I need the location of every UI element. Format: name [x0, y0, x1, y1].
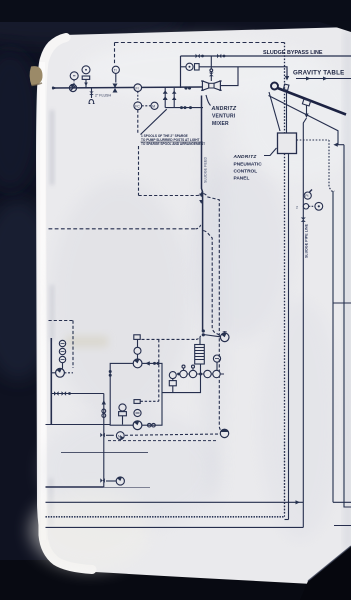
wire: venturi outlet riser	[220, 67, 238, 86]
gauge above valve row	[213, 355, 220, 362]
svg-text:TO SPARGE SPOOL AND ARRANGEMEN: TO SPARGE SPOOL AND ARRANGEMENT	[141, 142, 205, 146]
dashed signal inside skid	[141, 400, 159, 402]
svg-text:2" FLUSH: 2" FLUSH	[95, 94, 111, 98]
skid inlet arrow on top edge	[145, 361, 150, 365]
head roller	[271, 83, 278, 90]
instrument stack left	[59, 340, 65, 346]
wire: left standpipe	[50, 338, 52, 425]
wire: sparge sub-header	[165, 107, 203, 109]
check valve on main line	[113, 84, 118, 93]
svg-text:SLUDGE PIPE LINE: SLUDGE PIPE LINE	[304, 223, 308, 258]
tan notch left edge	[30, 66, 43, 85]
controller bubble below	[134, 102, 142, 110]
faint ghost marks near fore-edge	[50, 110, 54, 185]
sprays on table	[302, 99, 310, 106]
wire: dashed drop to main line	[114, 43, 116, 65]
svg-text:ANDRITZ: ANDRITZ	[211, 106, 237, 112]
motor bubble right of controller	[151, 102, 158, 109]
junction dots on feed drop bottom	[202, 329, 205, 332]
svg-text:SLUDGE BYPASS LINE: SLUDGE BYPASS LINE	[263, 50, 323, 56]
pump P1 on main line	[69, 84, 76, 91]
svg-text:CONTROL: CONTROL	[234, 169, 258, 175]
wire: dashed skid enclosure	[142, 338, 197, 340]
wire: coil drop to gauge run	[162, 364, 201, 393]
page fore-edge highlight strip	[42, 38, 93, 570]
valve pair on bypass	[196, 54, 200, 58]
instrument bubble TI above	[112, 66, 119, 73]
pressure bubbles on discharge line	[304, 192, 311, 199]
label venturi mixer	[206, 95, 211, 106]
gravity table belt	[271, 86, 346, 115]
svg-text:PNEUMATIC: PNEUMATIC	[234, 162, 263, 168]
svg-text:VENTURI: VENTURI	[212, 114, 236, 120]
wire: riser to bypass	[180, 56, 182, 88]
pressure gauge PG1	[82, 66, 90, 74]
gauge in skid	[119, 404, 126, 411]
pump skid box	[110, 363, 162, 425]
flexible coupling coil	[195, 345, 205, 365]
svg-text:PI: PI	[305, 194, 308, 198]
wire: instrument air dashed header	[115, 42, 285, 44]
riser pair with flow chevrons	[165, 88, 174, 108]
svg-text:GRAVITY TABLE: GRAVITY TABLE	[293, 70, 344, 77]
wire: dashed drain lower	[108, 440, 218, 442]
wire: bottom corner to left	[46, 486, 104, 488]
node: line end arrow	[53, 86, 58, 90]
flow indicator FI on line	[134, 84, 142, 92]
wire: main sludge feed header	[53, 87, 202, 88]
wire: right frame vertical	[344, 145, 351, 507]
wire: right jog	[333, 501, 351, 503]
paper mottling	[50, 180, 190, 420]
wire: riser with arrow lower-left	[103, 394, 105, 488]
wire: flush branch with valves	[51, 393, 104, 395]
valve on venturi top stem	[210, 72, 212, 81]
wire: dashed air line down right side	[284, 43, 286, 134]
svg-text:MIXER: MIXER	[212, 121, 229, 127]
wire: table leg to panel	[286, 92, 288, 133]
wire: bottom run of standpipe	[46, 424, 111, 426]
dashed drop from controller to note box	[137, 110, 139, 133]
wire: table discharge line down	[303, 118, 306, 527]
wire: panel signal line down	[288, 154, 290, 520]
svg-text:SLUDGE FEED: SLUDGE FEED	[203, 157, 207, 183]
booster pump	[220, 333, 229, 342]
instruments above skid	[134, 335, 140, 340]
wire: drain lateral	[61, 452, 148, 454]
pump on standpipe	[51, 372, 55, 374]
flange dots	[180, 106, 183, 109]
wire: sludge bypass line	[181, 55, 351, 57]
wire: sludge feed drop line	[202, 96, 203, 331]
black wedge bottom right	[300, 546, 351, 600]
gauge with dampener	[169, 372, 176, 379]
note pointer diagonal	[141, 109, 167, 134]
svg-text:M: M	[152, 104, 155, 108]
svg-text:2: 2	[296, 205, 298, 209]
bubbles in skid	[134, 400, 140, 404]
wire: branch stub to page edge	[333, 302, 351, 304]
wire: bypass drop to recirc	[210, 56, 212, 69]
wire: dashed note enclosure	[138, 146, 140, 196]
flange dots on skid left edge	[109, 370, 112, 373]
idler block	[283, 84, 289, 90]
unions on venturi inlet	[184, 86, 187, 89]
flow chevrons on feed drop	[199, 194, 203, 204]
pump on skid bottom edge	[133, 421, 142, 430]
wire: recirc line to table	[199, 67, 287, 79]
wire: bottom outfall lines	[46, 501, 304, 503]
svg-text:TI: TI	[114, 68, 117, 72]
wire: panel air dotted run right	[297, 139, 330, 141]
label pneumatic control panel	[264, 148, 277, 156]
unions on skid outlet	[148, 423, 152, 427]
table frame	[269, 96, 339, 146]
valve cluster bottom	[100, 478, 105, 483]
hose connection omega	[89, 100, 94, 104]
union on venturi stem	[210, 69, 213, 72]
svg-text:PANEL: PANEL	[234, 176, 250, 182]
discharge chute arrow	[338, 144, 344, 146]
valve row	[179, 373, 225, 375]
venturi mixer	[202, 81, 208, 90]
gauge and seal on recirc line	[181, 66, 187, 68]
wire: dashed drain header	[125, 434, 219, 435]
wire: long dashed air branch	[49, 228, 196, 230]
wire: dashed corner lower-left	[49, 320, 74, 322]
flush valve below line	[91, 88, 93, 98]
svg-text:FC: FC	[135, 104, 140, 108]
valve cluster mid drain	[100, 433, 105, 438]
svg-text:FI: FI	[136, 86, 139, 90]
instrument bubble above pump	[70, 72, 78, 80]
wire: right corners	[284, 440, 286, 517]
wire: feed distribution with arrows	[296, 78, 351, 80]
stub to booster pump	[203, 335, 220, 337]
pneumatic control panel box	[278, 133, 297, 154]
svg-text:ANDRITZ: ANDRITZ	[233, 154, 258, 160]
pump on skid top edge	[133, 359, 142, 368]
